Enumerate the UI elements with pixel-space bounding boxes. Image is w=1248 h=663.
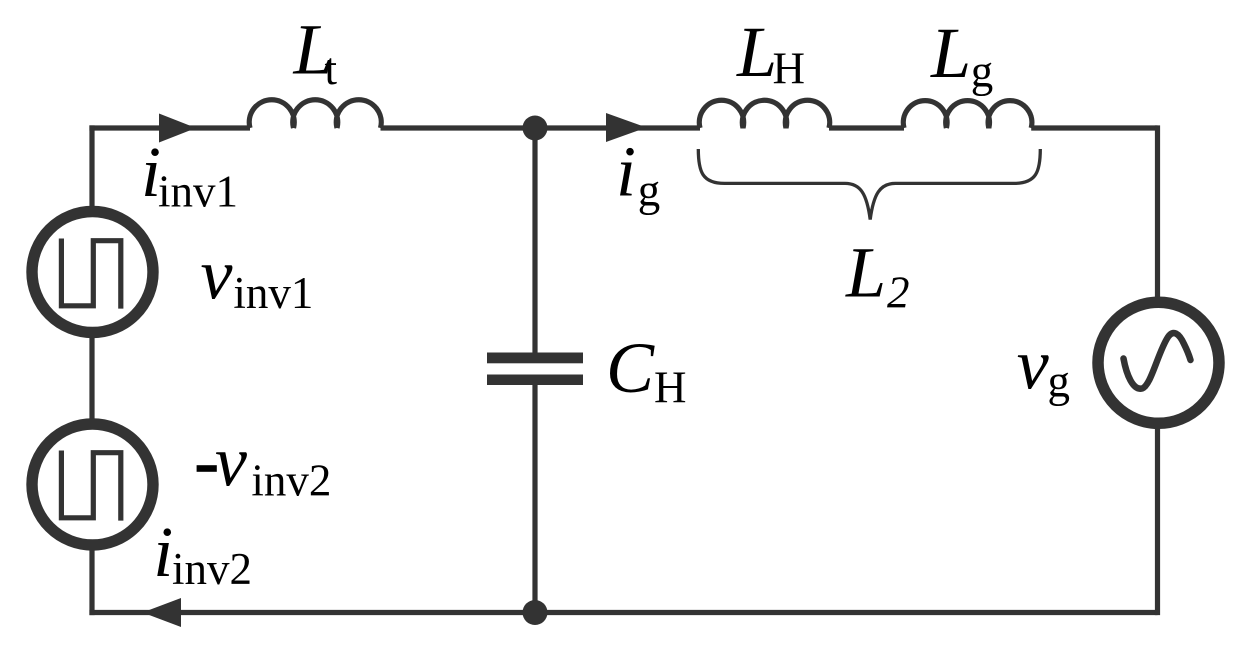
arrow ig (right-pointing after node A) (606, 113, 646, 142)
svg-text:inv1: inv1 (158, 166, 238, 216)
svg-text:inv2: inv2 (251, 456, 331, 506)
label minus-vinv2 (197, 465, 217, 472)
wire: left vertical between sources (89, 337, 94, 420)
svg-text:i: i (616, 132, 636, 212)
inductor Lt (249, 100, 381, 128)
svg-text:2: 2 (887, 268, 910, 318)
svg-text:inv1: inv1 (233, 268, 313, 318)
node B (bottom junction dot) (523, 600, 548, 625)
wire: top middle from Lt to node A (381, 125, 536, 130)
source vinv1 circle (32, 212, 153, 333)
wire: capacitor branch lower (532, 384, 537, 613)
svg-text:L: L (736, 12, 777, 92)
inductor LH (699, 100, 829, 128)
svg-text:v: v (201, 234, 233, 314)
svg-text:C: C (606, 328, 655, 408)
source vg sine symbol (1124, 333, 1191, 389)
wire: capacitor branch upper (532, 128, 537, 353)
node A (top junction dot) (523, 116, 548, 141)
source vinv2 circle (32, 424, 153, 545)
svg-text:v: v (215, 422, 247, 502)
wire: top-right from Lg to right corner (1031, 125, 1157, 130)
wire: left vertical below source 2 (89, 549, 94, 615)
wire: right vertical top segment (1155, 125, 1160, 298)
svg-text:H: H (654, 362, 687, 412)
svg-text:i: i (153, 512, 173, 592)
wire: right vertical bottom segment (1155, 427, 1160, 615)
svg-text:g: g (638, 165, 661, 215)
wire: between LH and Lg (829, 125, 904, 130)
source vinv1 square-wave symbol (61, 239, 120, 309)
svg-text:g: g (1048, 357, 1071, 407)
capacitor CH bottom plate (487, 375, 583, 386)
wire: left vertical top segment (89, 125, 94, 208)
svg-text:L: L (930, 13, 971, 93)
source vinv2 square-wave symbol (61, 451, 120, 521)
svg-text:t: t (325, 44, 338, 94)
capacitor CH top plate (487, 353, 583, 364)
inductor Lg (903, 101, 1032, 128)
arrow iinv2 (left-pointing on bottom wire) (143, 598, 182, 627)
source vg circle (1098, 302, 1219, 423)
wire: top-left horizontal from left corner to Lt (89, 125, 250, 130)
brace for L2 (underbrace spanning LH and Lg) (698, 149, 1040, 220)
wire: top from node A to LH (535, 125, 700, 130)
svg-text:inv2: inv2 (172, 544, 252, 594)
svg-text:g: g (971, 47, 994, 97)
svg-text:H: H (773, 43, 806, 93)
svg-text:v: v (1017, 324, 1049, 404)
wire: bottom horizontal (89, 610, 1157, 615)
svg-text:L: L (845, 233, 886, 313)
arrow iinv1 (right-pointing on top-left wire) (159, 114, 196, 143)
